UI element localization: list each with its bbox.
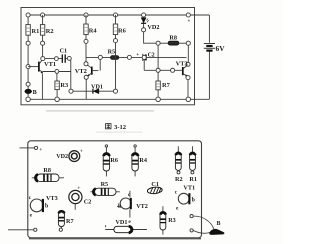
node rail R7 (156, 97, 161, 102)
resistor R1 (26, 25, 39, 36)
wire C1 row (45, 58, 68, 60)
wire to earphone B lower (193, 230, 210, 233)
svg-text:R2: R2 (46, 28, 54, 35)
diode VD1 (73, 83, 114, 93)
diode VD1 layout (105, 219, 147, 233)
resistor R7 (156, 72, 171, 99)
node C2 left (127, 55, 131, 59)
svg-text:R2: R2 (175, 176, 183, 183)
wire R6 column (115, 15, 117, 89)
svg-text:VD1: VD1 (115, 219, 127, 226)
node VD1 row left (69, 89, 73, 93)
svg-text:VD2: VD2 (147, 24, 159, 31)
wire VT3 emitter column (187, 80, 189, 100)
wire R8-VT3 riser (157, 45, 159, 68)
transistor VT3 (176, 60, 188, 76)
svg-text:c: c (175, 189, 178, 195)
svg-text:R3: R3 (168, 217, 176, 224)
svg-text:C1: C1 (151, 181, 159, 188)
battery 6V (204, 15, 225, 99)
svg-text:B: B (217, 221, 221, 227)
resistor R8 (160, 35, 186, 45)
wire VT2 emitter column (85, 79, 87, 99)
svg-text:R5: R5 (108, 49, 116, 56)
node VT2 collector (84, 62, 88, 66)
node R3 top (55, 69, 59, 73)
node VT3 emitter (186, 76, 190, 80)
microphone B (25, 89, 37, 96)
capacitor C2 (131, 52, 186, 61)
node VT1 collector (41, 57, 45, 61)
svg-text:3-12: 3-12 (114, 124, 127, 131)
earphone B (210, 229, 224, 234)
node VD2 bottom (142, 28, 146, 32)
svg-text:+: + (136, 52, 139, 58)
svg-text:C1: C1 (60, 48, 68, 55)
svg-text:b: b (192, 197, 195, 203)
resistor R2 layout (175, 146, 183, 183)
capacitor C2 layout (69, 186, 92, 210)
node R8 right (186, 41, 190, 45)
svg-text:VT3: VT3 (46, 195, 58, 202)
node base row risers (142, 55, 146, 59)
svg-text:VT2: VT2 (136, 203, 148, 210)
wire VT3 collector column (187, 45, 189, 62)
node rail R3 (55, 97, 60, 102)
transistor VT3 layout (29, 195, 58, 219)
wire to earphone B upper (193, 216, 214, 229)
svg-text:6V: 6V (216, 44, 226, 53)
svg-text:R1: R1 (32, 28, 40, 35)
svg-text:+: + (77, 186, 80, 192)
wire supply lead bottom (8, 229, 34, 231)
svg-text:R4: R4 (89, 27, 98, 34)
svg-text:c: c (29, 195, 32, 201)
node R4 bottom (84, 39, 88, 43)
terminal pads to B (190, 215, 193, 218)
svg-text:R7: R7 (162, 82, 171, 89)
wire supply lead + (20, 147, 35, 149)
node VD1 row right (113, 89, 117, 93)
wire emitter row to R3 (42, 71, 70, 73)
wire left column with mic B (27, 15, 29, 99)
node R2 bottom (41, 41, 45, 45)
svg-text:e: e (128, 219, 131, 225)
wire top rail (28, 14, 209, 16)
svg-text:R8: R8 (169, 35, 177, 42)
wire VD2 column to R8 row (144, 32, 157, 44)
wire R4 column (85, 15, 87, 62)
transistor VT1 (28, 59, 56, 73)
resistor R3 (55, 73, 68, 99)
schematic frame (21, 8, 195, 105)
resistor R4 layout (132, 145, 147, 177)
resistor R8 layout (32, 167, 64, 182)
svg-text:R5: R5 (101, 181, 109, 188)
svg-text:R8: R8 (43, 167, 51, 174)
LED VD2 top view (56, 148, 83, 161)
svg-text:R4: R4 (139, 157, 147, 164)
node R8 row (156, 41, 160, 45)
resistor R5 (108, 49, 119, 60)
caption 图 3-12 (106, 124, 111, 129)
resistor R4 (84, 24, 98, 35)
svg-text:R6: R6 (110, 157, 118, 164)
capacitor C1 layout (147, 181, 162, 194)
svg-text:B: B (33, 89, 37, 96)
node top rail (26, 13, 30, 17)
resistor R2 (40, 25, 53, 36)
board bottom shadow (29, 238, 201, 240)
node R6 bottom (113, 39, 117, 43)
resistor R1 layout (189, 146, 197, 183)
svg-text:VT3: VT3 (176, 60, 188, 67)
node VT3 collector (186, 62, 190, 66)
transistor VT1 layout (175, 184, 195, 211)
node VT2 emitter (84, 75, 88, 79)
node C1 left (54, 57, 58, 61)
node on left column (26, 41, 30, 45)
resistor R6 layout (103, 145, 118, 177)
svg-text:C2: C2 (84, 199, 92, 206)
wire VT1 emitter column (41, 73, 43, 99)
wire R2 column (42, 15, 44, 58)
svg-text:e: e (176, 205, 179, 211)
wire VT3 base row (144, 59, 182, 70)
resistor R7 layout (58, 210, 73, 231)
svg-text:e: e (30, 213, 33, 219)
resistor R5 layout (90, 181, 119, 195)
svg-text:R1: R1 (189, 176, 197, 183)
svg-text:R6: R6 (118, 27, 127, 34)
svg-text:C2: C2 (148, 52, 155, 58)
node rail VT3 (186, 97, 191, 102)
svg-text:b: b (118, 204, 121, 210)
svg-text:VT1: VT1 (183, 184, 195, 191)
svg-text:c: c (128, 192, 131, 198)
board outline (28, 141, 202, 238)
smudge under schematic (46, 110, 154, 111)
svg-text:+: + (39, 147, 42, 153)
svg-text:R7: R7 (66, 218, 74, 225)
resistor R6 (113, 24, 126, 35)
wire VT2 base riser (99, 59, 101, 70)
wire R5 row (86, 56, 128, 58)
svg-text:VT2: VT2 (75, 68, 87, 75)
svg-text:+: + (188, 20, 191, 25)
svg-text:+: + (80, 148, 83, 154)
diode VD2 (141, 17, 159, 31)
node C1 right (67, 56, 71, 60)
svg-text:b: b (45, 204, 48, 210)
transistor VT2 layout (117, 191, 148, 225)
resistor R3 layout (160, 206, 176, 234)
node R5 row left (98, 55, 102, 59)
transistor VT2 (75, 65, 99, 76)
wire bottom rail (28, 98, 209, 100)
capacitor C1 (60, 48, 68, 63)
svg-text:R3: R3 (60, 82, 68, 89)
svg-text:VD2: VD2 (56, 154, 68, 160)
wire C1 down column (70, 60, 72, 89)
svg-text:VD1: VD1 (91, 83, 103, 90)
svg-text:VT1: VT1 (44, 61, 56, 68)
